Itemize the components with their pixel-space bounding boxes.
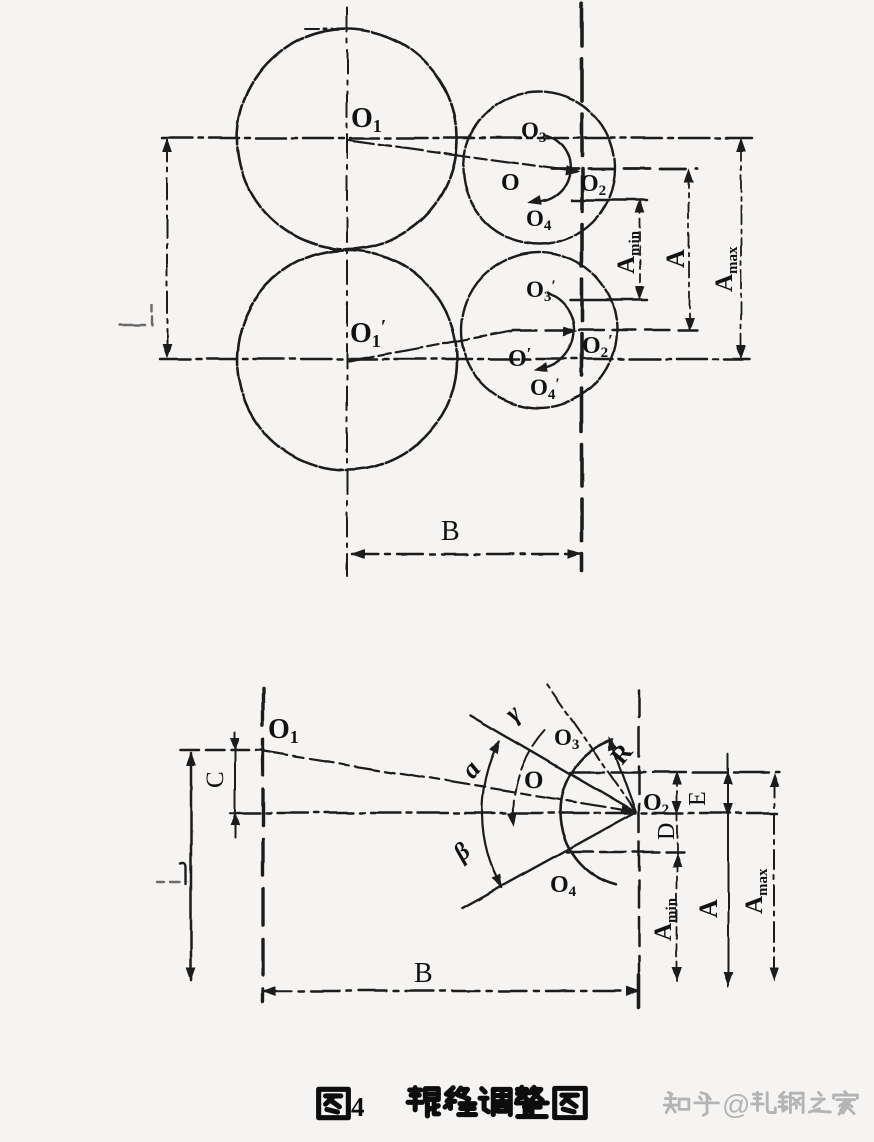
TEXT-TOP [350, 103, 741, 547]
left vertical dimension line x=167 [166, 140, 168, 357]
line O1' to O2' [349, 331, 512, 361]
upper eccentric locus arc [533, 135, 570, 202]
watermark character ZHI (of) [809, 1092, 830, 1112]
horizontal centerline upper roll y=138 [162, 137, 752, 140]
horizontal centerline lower figure y=813 [230, 812, 777, 814]
watermark character JIA (home) [834, 1092, 858, 1115]
dashed line through O2 (A top reference) [552, 168, 697, 171]
caption character TU2 (figure) [555, 1088, 586, 1117]
end tick of B line [637, 975, 641, 1007]
svg-text:A: A [661, 249, 690, 268]
svg-text:4: 4 [351, 1092, 365, 1122]
A arrows [685, 170, 693, 182]
arrow on middle arc [508, 813, 518, 826]
heavy vertical dashed line (roll gap plane) [580, 4, 584, 570]
Amax dimension line [740, 142, 742, 356]
arrowhead on R line [605, 737, 617, 751]
gray leader dashes lower left [157, 881, 180, 883]
svg-text:@: @ [722, 1089, 750, 1120]
dashed line through O2' (A bottom reference) [513, 329, 697, 331]
B dimension line (lower figure) [264, 990, 639, 992]
Amax arrows [770, 774, 778, 786]
svg-text:B: B [441, 516, 460, 547]
Amax arrows [737, 139, 745, 151]
horizontal line at O3 level y=772 [570, 771, 779, 773]
vertical centerline of work rolls [346, 8, 348, 576]
watermark character HU [695, 1093, 719, 1116]
eccentric locus circle (lower figure) [560, 740, 616, 885]
svg-text:O: O [524, 767, 543, 794]
upper eccentric sleeve circle [463, 92, 615, 244]
left solid vertical line x=191 [190, 753, 193, 980]
watermark character ZHI (know) [664, 1092, 689, 1112]
caption character DIAO (adjust) [480, 1089, 510, 1115]
svg-text:E: E [685, 791, 711, 806]
horizontal line at O4 level y=852 [567, 851, 684, 853]
arrow on upper locus arc [528, 196, 541, 207]
arrowhead at O2 end of O1 line [621, 805, 634, 815]
svg-text:C: C [202, 771, 229, 788]
short centerline tick at circle top [305, 28, 347, 30]
watermark character GANG (steel) [779, 1092, 803, 1113]
B arrows (top figure) [352, 550, 364, 558]
Amin top bracket [572, 199, 647, 202]
left dim bottom arrow [163, 345, 171, 357]
B arrows (lower figure) [264, 987, 276, 995]
A dimension line x=728 [727, 753, 729, 987]
lower eccentric sleeve circle [461, 252, 617, 408]
arrowhead at O2' [564, 327, 576, 335]
svg-text:D: D [654, 823, 680, 840]
A arrows x=728 [724, 772, 732, 784]
R radius line [611, 743, 636, 812]
lower work roll circle O1' [237, 250, 457, 470]
E arrows on x=677 [673, 772, 681, 784]
svg-text:B: B [414, 958, 433, 989]
arrows of left vertical [187, 753, 195, 765]
svg-text:A: A [694, 899, 723, 918]
upper work roll circle O1 [237, 29, 457, 249]
caption character ZHENG (whole) [516, 1087, 547, 1116]
A dimension line [688, 172, 690, 328]
Amin arrows on x=677 [673, 854, 681, 866]
B dimension line (top figure) [352, 553, 580, 555]
E / Amin dimension line x=677 [676, 774, 678, 981]
caption character GUN (roll) [408, 1088, 439, 1116]
Amin arrows [636, 200, 644, 212]
line O1-O2 (lower figure) [264, 751, 630, 811]
short dashed line at O1 level [181, 749, 264, 752]
angle arc alpha+beta [482, 741, 502, 887]
caption character TU (figure) [319, 1089, 349, 1117]
gray leader dashes left [120, 305, 152, 326]
caption character FENG (gap) [445, 1088, 476, 1115]
arrowhead at O2 [566, 166, 579, 176]
C arrows [231, 738, 239, 750]
gamma line (dash-dot) [546, 683, 636, 812]
LOWER-DIAGRAM [157, 683, 779, 1007]
Amax dimension line x=774 [773, 777, 775, 980]
beta line (O4 direction) [462, 812, 636, 908]
Amin dimension line [639, 204, 641, 295]
vertical dashed line x=263 (left roll axis) [261, 689, 264, 1002]
svg-text:O: O [501, 170, 520, 196]
line O1 to O2 [349, 140, 566, 170]
vertical dashed line x=639 (through O2) [638, 690, 641, 996]
left dim top arrow [163, 140, 171, 152]
C dimension line x=235 [234, 732, 236, 838]
lower eccentric locus arc [538, 293, 574, 369]
watermark character YA (roll) [752, 1092, 775, 1112]
alpha line (O3 direction) [470, 715, 636, 812]
small curl mark on left line [181, 864, 186, 885]
Amin bottom bracket [570, 299, 647, 302]
arrow on lower locus arc [533, 363, 546, 374]
horizontal centerline lower roll y=359 [160, 358, 749, 361]
arrowheads of angle arc [490, 739, 503, 754]
middle arc through O [513, 730, 545, 825]
